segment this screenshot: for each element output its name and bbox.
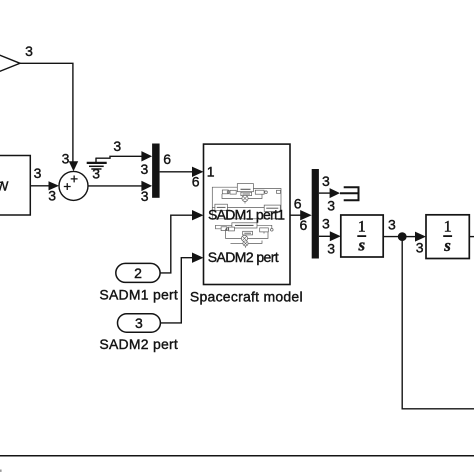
wire port3 to spacecraft SADM2 input bbox=[160, 258, 193, 323]
integrator 2 block bbox=[426, 215, 469, 259]
svg-text:3: 3 bbox=[141, 161, 149, 177]
svg-text:6: 6 bbox=[294, 195, 302, 211]
arrow into sum top bbox=[69, 161, 78, 171]
svg-text:3: 3 bbox=[113, 138, 121, 154]
spacecraft model block bbox=[204, 144, 291, 284]
input port 2 bbox=[116, 263, 160, 282]
terminator bbox=[340, 186, 359, 201]
wire gain to sum (right then down) bbox=[20, 63, 73, 162]
ground bbox=[87, 158, 107, 169]
plus sign left input bbox=[64, 183, 71, 190]
svg-text:3: 3 bbox=[34, 165, 42, 181]
wire demux top output to terminator bbox=[319, 192, 330, 194]
svg-text:6: 6 bbox=[163, 151, 171, 167]
svg-text:3: 3 bbox=[327, 197, 335, 213]
wire integrator 2 output to right edge bbox=[469, 236, 474, 238]
svg-text:2: 2 bbox=[134, 265, 142, 281]
mux bbox=[152, 144, 160, 198]
arrow into spacecraft input 1 bbox=[192, 167, 204, 177]
svg-text:s: s bbox=[357, 236, 365, 255]
svg-text:3: 3 bbox=[322, 173, 330, 189]
svg-text:SADM2 pert: SADM2 pert bbox=[208, 249, 279, 265]
sum junction bbox=[59, 171, 88, 200]
wire spacecraft to demux bbox=[290, 214, 302, 216]
cropped mark at bottom-left edge bbox=[0, 470, 2, 472]
arrow into spacecraft input 3 bbox=[192, 253, 204, 263]
wire junction down and right (feedback) bbox=[402, 239, 474, 409]
block W (clipped at left edge) bbox=[0, 156, 30, 216]
arrow into sum left bbox=[49, 181, 60, 190]
svg-text:1: 1 bbox=[207, 163, 215, 179]
arrow into demux bbox=[300, 210, 312, 220]
svg-text:s: s bbox=[443, 236, 451, 255]
svg-text:Spacecraft model: Spacecraft model bbox=[190, 288, 303, 304]
gain block (clipped at left edge) bbox=[0, 47, 20, 81]
arrow into spacecraft input 2 bbox=[192, 210, 204, 220]
arrow into mux upper input bbox=[141, 151, 152, 161]
wire W to sum bbox=[30, 185, 49, 187]
wire integrator 1 to junction bbox=[383, 236, 402, 238]
wire junction to integrator 2 bbox=[402, 236, 415, 238]
svg-text:3: 3 bbox=[135, 315, 143, 331]
svg-text:SADM2 pert: SADM2 pert bbox=[99, 336, 178, 352]
plus sign top input bbox=[71, 176, 78, 183]
input port 3 bbox=[118, 314, 161, 333]
svg-text:3: 3 bbox=[25, 43, 33, 59]
svg-text:3: 3 bbox=[62, 150, 70, 166]
svg-text:3: 3 bbox=[322, 215, 330, 231]
svg-text:SADM1 pert: SADM1 pert bbox=[99, 286, 178, 302]
svg-text:3: 3 bbox=[48, 188, 56, 204]
wire sum to mux bbox=[88, 185, 142, 187]
wire long feedback line at bottom bbox=[0, 455, 474, 457]
junction node bbox=[398, 232, 407, 241]
wire demux bottom output to integrator 1 bbox=[319, 235, 331, 237]
demux bbox=[312, 169, 319, 259]
svg-text:3: 3 bbox=[388, 217, 396, 233]
wire mux to spacecraft model bbox=[160, 171, 193, 173]
thumbnail mini-diagram bbox=[212, 184, 281, 219]
arrow into integrator 1 bbox=[330, 231, 341, 241]
arrow into integrator 2 bbox=[415, 232, 426, 242]
svg-text:3: 3 bbox=[327, 241, 335, 257]
svg-text:3: 3 bbox=[141, 188, 149, 204]
wire ground to mux (with jog) bbox=[96, 156, 142, 158]
svg-text:3: 3 bbox=[416, 240, 424, 256]
wire port2 to spacecraft SADM1 input bbox=[160, 215, 193, 273]
svg-text:W: W bbox=[0, 178, 9, 193]
integrator 1 block bbox=[341, 215, 383, 257]
svg-text:3: 3 bbox=[92, 166, 100, 182]
svg-text:6: 6 bbox=[192, 174, 200, 190]
arrow into mux lower input bbox=[141, 181, 152, 191]
svg-text:SADM1 pert1: SADM1 pert1 bbox=[208, 206, 285, 222]
arrow into terminator bbox=[330, 188, 340, 198]
svg-text:1: 1 bbox=[444, 218, 452, 235]
svg-text:1: 1 bbox=[358, 218, 366, 235]
svg-text:6: 6 bbox=[300, 217, 308, 233]
